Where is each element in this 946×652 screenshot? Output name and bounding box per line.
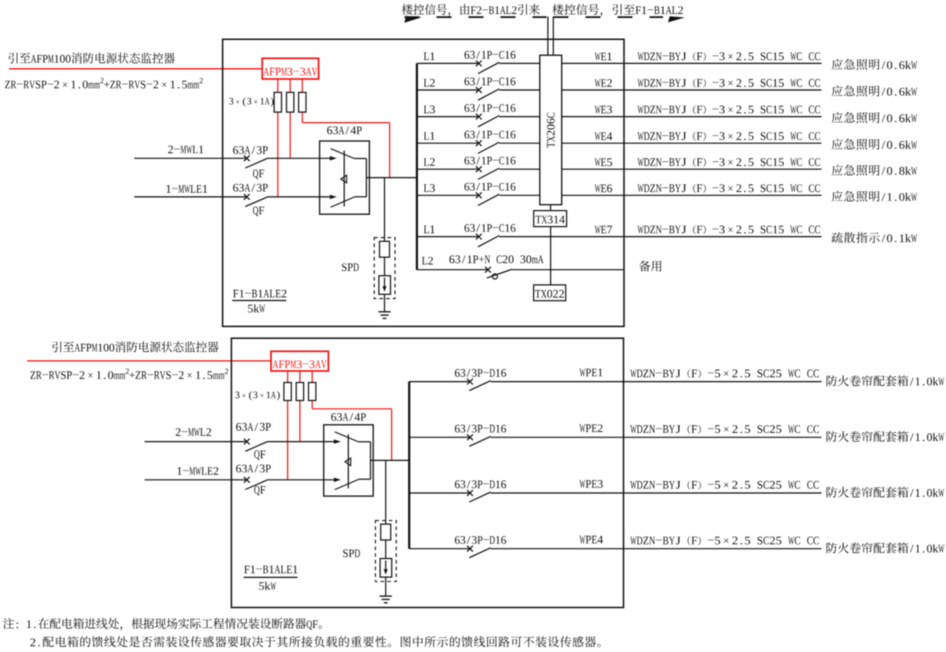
distribution bus panel 1 (416, 63, 418, 269)
load description WE7 (832, 232, 843, 243)
breaker 63/1P-C16 WE3 (464, 104, 469, 112)
ATS internal contacts panel 2 (335, 432, 359, 442)
load description WE5 (832, 165, 843, 176)
wire feeder WE1 to sensor (499, 62, 540, 64)
breaker QF input 1-MWLE2 rating 63A/3P (236, 465, 241, 473)
wire feeder WE6 to sensor (499, 194, 540, 196)
note line 1 (3, 618, 14, 629)
circuit label WPE2 (580, 424, 586, 432)
phase label L3 WE6 (424, 184, 429, 192)
wire feeder WE5 to sensor (499, 168, 540, 170)
top annotation: control signal incoming (402, 4, 413, 15)
SPD label panel 1 (342, 263, 347, 271)
ATS dual-power switch 63A/4P panel 2 (324, 425, 374, 496)
feeder name label input 2-MWL2 (176, 428, 181, 436)
load description WE1 (832, 59, 843, 70)
wire feeder WE2 from bus (417, 89, 479, 91)
breaker 63/1P-C16 WE7 (464, 224, 469, 232)
panel F1-B1ALE2 enclosure (223, 39, 624, 326)
breaker 63/1P-C16 WE6 (464, 183, 469, 191)
SPD surge protector panel 2 (375, 521, 396, 582)
wire feeder WPE2 from bus (409, 436, 470, 438)
breaker 63/1P-C16 WE2 (464, 78, 469, 86)
monitor voltage-tap wiring (red) (277, 79, 279, 197)
wire feeder WE1 outgoing (562, 62, 822, 64)
panel F1-B1ALE1 enclosure (231, 338, 623, 607)
cable spec WE1 (638, 53, 644, 61)
fuse bank 3x(3x1A) panel 1 (274, 92, 281, 112)
breaker 63/3P-D16 WPE1 (455, 369, 460, 377)
phase label L3 WE3 (424, 106, 429, 114)
cable spec WE7 (638, 226, 644, 234)
wire feeder WPE4 outgoing (491, 548, 822, 550)
monitor module AFPM3-3AV (panel 2) (271, 351, 328, 371)
feeder name label input 2-MWL1 (168, 146, 173, 154)
breaker QF input 1-MWLE1 rating 63A/3P (233, 184, 238, 192)
cable spec ZR-RVSP (panel 1) (5, 81, 10, 89)
wire incoming input 2-MWL1 (134, 157, 247, 159)
distribution bus panel 2 (408, 382, 410, 549)
wire feeder WE5 from bus (417, 168, 479, 170)
circuit label WPE4 (580, 536, 586, 544)
phase label L1 WE1 (424, 52, 429, 60)
load description WE3 (832, 112, 843, 123)
circuit label WE3 (595, 106, 601, 114)
wire feeder WE1 from bus (417, 62, 479, 64)
feeder name label input 1-MWLE1 (167, 185, 171, 193)
wire feeder WE5 outgoing (562, 168, 822, 170)
breaker 63/3P-D16 WPE3 (455, 480, 460, 488)
cable spec WPE3 (630, 481, 636, 489)
ATS dual-power switch 63A/4P panel 1 (320, 141, 370, 214)
wire feeder WPE3 outgoing (491, 492, 822, 494)
breaker QF input 2-MWL2 rating 63A/3P (236, 423, 241, 431)
phase label L1 WE7 (424, 226, 429, 234)
wire feeder WE3 from bus (417, 116, 479, 118)
fuse bank 3x(3x1A) panel 2 (284, 383, 291, 401)
wire incoming input 2-MWL2 (145, 441, 247, 443)
panel name label F1-B1ALE2 (233, 290, 238, 298)
wire feeder WE2 to sensor (499, 89, 540, 91)
SPD label panel 2 (343, 549, 348, 557)
circuit label WPE3 (580, 480, 586, 488)
value label 3x(3x1A) panel 1 (229, 98, 233, 105)
phase label L2 WE5 (424, 158, 429, 166)
sensor module TX206C (540, 55, 562, 205)
load description WPE2 (826, 431, 837, 442)
load label 备用 (639, 261, 650, 272)
cable spec ZR-RVSP (panel 2) (30, 371, 35, 379)
wire from QF to ATS input 1-MWLE2 (268, 479, 335, 481)
phase label L1 WE4 (424, 132, 429, 140)
ground symbol panel 1 (378, 311, 390, 313)
wire ATS output to SPD junction panel 2 (385, 460, 387, 524)
load description WE4 (832, 139, 843, 150)
cable spec WE3 (638, 106, 644, 114)
feeder name label input 1-MWLE2 (178, 467, 182, 475)
circuit label WPE1 (580, 369, 586, 377)
circuit label WE1 (595, 53, 601, 61)
load description WPE1 (826, 375, 837, 386)
circuit label WE7 (595, 226, 601, 234)
wire feeder WE6 from bus (417, 194, 479, 196)
wire feeder WPE3 from bus (409, 492, 470, 494)
wire feeder WE6 outgoing (562, 194, 822, 196)
load description WPE3 (826, 487, 837, 498)
circuit label WE4 (595, 132, 601, 140)
wire feeder WE4 from bus (417, 142, 479, 144)
monitor bus wire (red) panel 1 (9, 68, 262, 70)
SPD surge protector panel 1 (374, 238, 395, 299)
circuit label WE6 (595, 185, 601, 193)
wire from QF to ATS input 1-MWLE1 (268, 196, 331, 198)
wire feeder WE4 to sensor (499, 142, 540, 144)
ATS internal contacts panel 1 (331, 149, 355, 159)
breaker 63/1P-C16 WE4 (464, 131, 469, 139)
wire ATS output to bus panel 2 (371, 459, 410, 461)
breaker QF input 2-MWL1 rating 63A/3P (233, 146, 238, 154)
sensor module TX314 (534, 211, 567, 227)
wire feeder WPE4 from bus (409, 548, 470, 550)
wire ATS output to bus panel 1 (366, 177, 417, 179)
cable spec WE2 (638, 79, 644, 87)
wire incoming input 1-MWLE1 (134, 196, 247, 198)
wire feeder WE3 outgoing (562, 116, 822, 118)
load description WE2 (832, 85, 843, 96)
wire feeder WE7 from bus (417, 236, 479, 238)
wire feeder WE3 to sensor (499, 116, 540, 118)
wire from QF to ATS input 2-MWL1 (268, 157, 331, 159)
breaker 63/3P-D16 WPE4 (455, 536, 460, 544)
wire from QF to ATS input 2-MWL2 (268, 441, 335, 443)
wire feeder WPE1 from bus (409, 381, 470, 383)
breaker 63/1P-C16 WE5 (464, 157, 469, 165)
phase label L2 WE2 (424, 79, 429, 87)
note line 2 (30, 639, 35, 647)
cable spec WE6 (638, 184, 644, 192)
spare feeder 备用 row (417, 269, 488, 271)
wire feeder WPE1 outgoing (491, 381, 822, 383)
cable spec WPE1 (630, 370, 636, 378)
wire incoming input 1-MWLE2 (145, 479, 247, 481)
monitor module AFPM3-3AV (panel 1) (262, 58, 318, 79)
wire feeder WE7 outgoing (499, 236, 821, 238)
top annotation: control signal outgoing (552, 4, 563, 15)
wire feeder WE4 outgoing (562, 142, 822, 144)
annotation: to AFPM100 monitor (panel 2) (52, 342, 61, 353)
monitor bus wire (red) panel 2 (27, 360, 271, 362)
control signal wires to TX206C (547, 17, 549, 56)
circuit label WE5 (595, 158, 601, 166)
panel name label F1-B1ALE1 (244, 566, 249, 574)
wire feeder WPE2 outgoing (491, 436, 822, 438)
cable spec WE4 (638, 132, 644, 140)
load description WE6 (832, 191, 843, 202)
breaker 63/3P-D16 WPE2 (455, 425, 460, 433)
wire feeder WE2 outgoing (562, 89, 822, 91)
cable spec WPE2 (630, 425, 636, 433)
wire ATS output to SPD junction panel 1 (384, 178, 386, 242)
cable spec WPE4 (630, 537, 636, 545)
load description WPE4 (826, 542, 837, 553)
wire TX206C to TX314/TX022 (550, 205, 552, 285)
sensor module TX022 (534, 285, 566, 301)
circuit label WE2 (595, 79, 601, 87)
monitor voltage-tap wiring (red) (287, 371, 289, 480)
ground symbol panel 2 (380, 595, 392, 597)
cable spec WE5 (638, 158, 644, 166)
breaker 63/1P-C16 WE1 (464, 51, 469, 59)
annotation: to AFPM100 monitor (panel 1) (8, 53, 17, 64)
value label 3x(3x1A) panel 2 (235, 392, 239, 399)
